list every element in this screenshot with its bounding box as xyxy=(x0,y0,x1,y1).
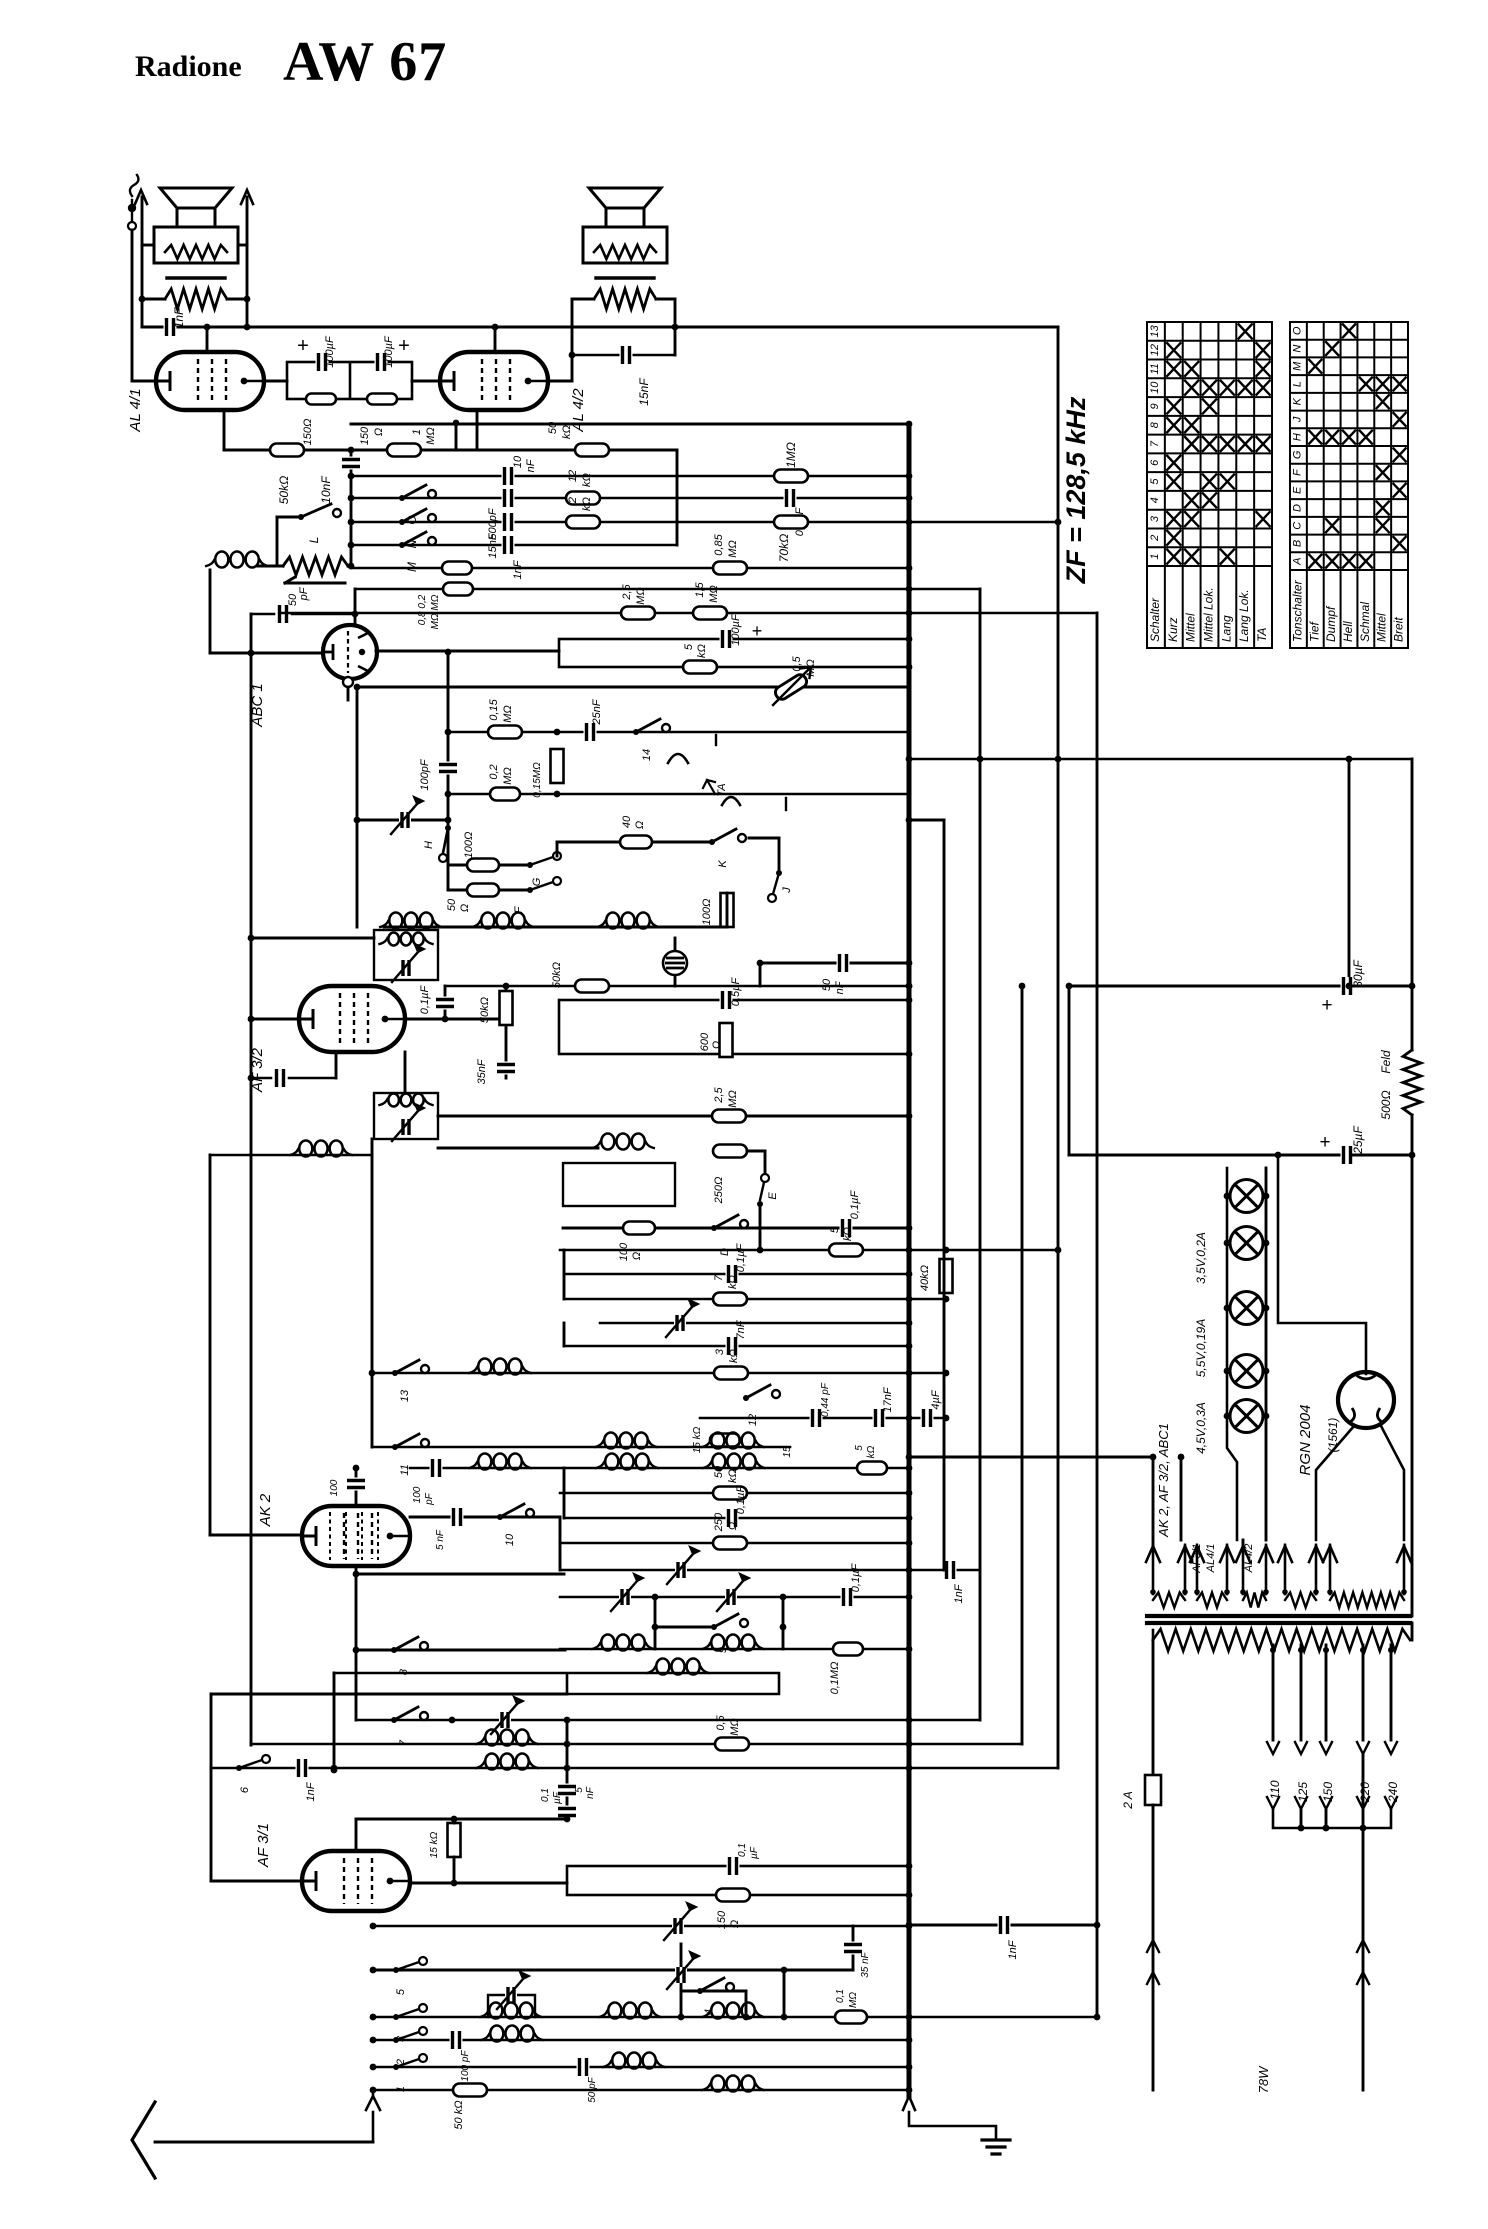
wire xyxy=(448,864,530,867)
junction xyxy=(369,1370,376,1377)
switch 5 xyxy=(396,1962,419,1970)
svg-text:AL 4/1: AL 4/1 xyxy=(127,388,144,432)
oscillator coil xyxy=(601,1134,614,1150)
cathode pin ABC1 xyxy=(343,677,353,687)
wire mains lead 1 xyxy=(1152,1640,1155,1775)
svg-text:0,5: 0,5 xyxy=(715,1714,727,1730)
resistor 2kΩ xyxy=(566,516,600,529)
wire xyxy=(405,1018,445,1021)
junction xyxy=(906,1465,913,1472)
svg-text:L: L xyxy=(1291,381,1303,387)
wire RGN pin left xyxy=(1316,1426,1354,1540)
junction xyxy=(943,1296,950,1303)
svg-text:220: 220 xyxy=(1358,1782,1372,1803)
svg-text:K: K xyxy=(717,860,729,868)
svg-text:12: 12 xyxy=(567,470,579,482)
svg-text:Ω: Ω xyxy=(711,1041,723,1049)
wire xyxy=(210,652,323,655)
svg-text:1nF: 1nF xyxy=(172,307,186,328)
tube ABC 1 xyxy=(323,625,377,679)
dial lamp 1 xyxy=(1230,1180,1263,1213)
svg-text:0,5: 0,5 xyxy=(791,655,803,671)
capacitor 1nF xyxy=(944,1561,957,1579)
resistor 7kΩ xyxy=(713,1293,747,1306)
wire xyxy=(448,889,530,892)
svg-text:13: 13 xyxy=(399,1389,411,1402)
svg-text:25µF: 25µF xyxy=(1351,1126,1365,1155)
svg-text:1MΩ: 1MΩ xyxy=(784,442,798,468)
grid capacitor xyxy=(274,1069,287,1087)
svg-text:MΩ: MΩ xyxy=(727,540,739,558)
wire loop row y1673 xyxy=(334,1673,779,1694)
trimmer capacitor xyxy=(664,1910,690,1940)
resistor 150Ω xyxy=(306,394,336,405)
coil xyxy=(478,1359,491,1375)
svg-text:AF 3/1: AF 3/1 xyxy=(255,1823,272,1868)
wire row y568 xyxy=(351,567,909,570)
junction xyxy=(906,1454,913,1461)
switch K xyxy=(709,839,715,845)
svg-text:K: K xyxy=(1291,397,1303,405)
junction xyxy=(1224,1240,1231,1247)
capacitor 5nF xyxy=(558,1806,576,1819)
svg-text:3: 3 xyxy=(1149,515,1161,522)
svg-text:8: 8 xyxy=(398,1668,410,1675)
primary winding xyxy=(1153,1629,1410,1651)
svg-text:Tief: Tief xyxy=(1307,620,1321,642)
resistor 50kΩ xyxy=(575,444,609,457)
resistor 150Ω xyxy=(367,394,397,405)
pickup jack arc 1 xyxy=(668,754,688,763)
wire xyxy=(356,687,359,927)
mains break arrows xyxy=(1357,1940,1369,1984)
junction xyxy=(780,1594,787,1601)
junction xyxy=(348,447,355,454)
junction xyxy=(906,1415,913,1422)
svg-text:A: A xyxy=(1291,557,1303,565)
svg-text:Schmal: Schmal xyxy=(1358,602,1372,642)
junction xyxy=(757,1247,764,1254)
junction xyxy=(906,1863,913,1870)
svg-text:2: 2 xyxy=(567,497,579,504)
junction xyxy=(906,983,913,990)
wire to ground xyxy=(909,2112,996,2140)
svg-text:M: M xyxy=(1291,361,1303,371)
wire row y1373 xyxy=(372,1372,946,1375)
svg-text:Dumpf: Dumpf xyxy=(1324,605,1338,642)
svg-text:B: B xyxy=(1291,540,1303,547)
switch 8 xyxy=(391,1647,397,1653)
svg-text:0,1: 0,1 xyxy=(835,1989,846,2003)
switch 13 xyxy=(392,1370,398,1376)
wire xyxy=(357,819,448,822)
wire heater tap xyxy=(1180,1457,1183,1540)
tap arrow xyxy=(1385,1797,1397,1809)
junction xyxy=(453,420,460,427)
svg-text:Breit: Breit xyxy=(1392,617,1406,642)
junction xyxy=(354,817,361,824)
field coil 500Ω xyxy=(1403,1050,1421,1115)
wire anode AL4/1 xyxy=(206,327,209,352)
svg-text:nF: nF xyxy=(585,1786,596,1799)
wire xyxy=(438,1147,598,1150)
resistor 40Ω xyxy=(620,836,652,849)
switch J xyxy=(773,873,779,894)
junction xyxy=(1323,1825,1330,1832)
capacitor 50nF xyxy=(837,954,850,972)
svg-text:12: 12 xyxy=(747,1414,759,1426)
junction xyxy=(139,296,146,303)
svg-text:3: 3 xyxy=(714,1348,726,1355)
svg-text:50kΩ: 50kΩ xyxy=(277,476,291,504)
junction xyxy=(1323,1647,1329,1653)
resistor 100Ω xyxy=(721,893,734,927)
wire xyxy=(131,230,134,381)
svg-text:150: 150 xyxy=(359,426,371,445)
svg-text:100Ω: 100Ω xyxy=(701,899,713,926)
junction xyxy=(445,791,452,798)
junction xyxy=(370,2037,377,2044)
wire xyxy=(277,516,301,519)
junction xyxy=(564,1741,571,1748)
junction xyxy=(248,1075,255,1082)
pickup jack arc 2 xyxy=(722,797,740,805)
svg-text:40: 40 xyxy=(621,815,633,828)
coil xyxy=(711,1635,724,1651)
wire row y1695 xyxy=(211,1693,567,1696)
junction xyxy=(352,611,359,618)
junction xyxy=(554,729,561,736)
resistor 3kΩ xyxy=(714,1367,748,1380)
svg-text:14: 14 xyxy=(641,749,653,761)
coil long-wave xyxy=(656,1659,669,1675)
wire lamp rail left xyxy=(1227,1168,1237,1540)
dial lamp 3 xyxy=(1230,1292,1263,1325)
tube AL 4/2 xyxy=(440,352,548,410)
svg-text:Mittel Lok.: Mittel Lok. xyxy=(1202,587,1216,642)
wire row y1155 xyxy=(1069,1154,1341,1157)
capacitor 10nF xyxy=(342,457,360,470)
resistor 0,1MΩ xyxy=(833,1643,863,1656)
svg-text:600: 600 xyxy=(699,1032,711,1051)
wire xyxy=(488,1995,535,2017)
junction xyxy=(554,791,561,798)
svg-text:ZF = 128,5 kHz: ZF = 128,5 kHz xyxy=(1061,396,1091,584)
svg-text:G: G xyxy=(1291,450,1303,459)
svg-text:kΩ: kΩ xyxy=(728,1349,740,1363)
svg-text:10: 10 xyxy=(504,1533,516,1546)
tap arrow xyxy=(1295,1797,1307,1809)
svg-text:2,5: 2,5 xyxy=(621,583,633,600)
svg-text:7: 7 xyxy=(1149,440,1161,447)
junction xyxy=(1298,1647,1304,1653)
svg-text:TA: TA xyxy=(1255,628,1269,642)
svg-text:AK 2: AK 2 xyxy=(257,1493,274,1527)
svg-text:J: J xyxy=(1291,416,1303,423)
wire antenna lead w/ arrow xyxy=(366,2090,380,2142)
wire row y1543 xyxy=(560,1542,909,1545)
switch N xyxy=(399,519,405,525)
coil xyxy=(485,1730,498,1746)
capacitor 100pF xyxy=(439,762,457,775)
resistor 100Ω xyxy=(623,1222,655,1235)
wire xyxy=(251,1018,299,1021)
junction xyxy=(906,997,913,1004)
junction xyxy=(370,2064,377,2071)
junction xyxy=(353,1571,360,1578)
junction xyxy=(781,1967,788,1974)
switch G xyxy=(530,857,553,865)
trimmer capacitor xyxy=(667,1554,693,1584)
svg-text:O: O xyxy=(1291,326,1303,335)
wire row y1926 xyxy=(373,1925,909,1928)
junction xyxy=(906,983,913,990)
svg-text:11: 11 xyxy=(1149,363,1161,374)
svg-text:6: 6 xyxy=(239,1786,251,1793)
wire main bus x909 xyxy=(907,424,912,2096)
junction xyxy=(906,1113,913,1120)
switch 14 xyxy=(633,729,639,735)
junction xyxy=(906,1741,913,1748)
junction xyxy=(451,1816,458,1823)
junction xyxy=(906,1594,913,1601)
IF1 trimmer xyxy=(392,952,418,982)
capacitor 35nF xyxy=(497,1062,515,1075)
svg-text:0,1: 0,1 xyxy=(540,1788,551,1802)
switch D xyxy=(711,1225,717,1231)
resistor 5kΩ xyxy=(829,1244,863,1257)
junction xyxy=(492,324,499,331)
resistor 0,2MΩ xyxy=(490,788,520,801)
IF transformer 1 box xyxy=(374,930,438,980)
svg-text:11: 11 xyxy=(399,1464,411,1475)
transformer core xyxy=(1147,1616,1410,1623)
wire xyxy=(674,938,677,986)
wire xyxy=(505,986,508,1078)
capacitor 0,44pF xyxy=(810,1409,823,1427)
trimmer capacitor xyxy=(497,1979,523,2009)
wire xyxy=(1152,1457,1155,1545)
svg-text:100µF: 100µF xyxy=(324,335,336,368)
svg-text:7nF: 7nF xyxy=(735,1319,747,1339)
svg-text:pF: pF xyxy=(424,1492,435,1506)
wire xyxy=(566,1720,569,1819)
svg-text:E: E xyxy=(767,1192,779,1200)
svg-text:0,1: 0,1 xyxy=(737,1843,748,1857)
coil antenna xyxy=(215,552,228,568)
junction xyxy=(204,324,211,331)
svg-text:+: + xyxy=(297,335,309,357)
TA arrow xyxy=(703,780,715,794)
junction xyxy=(348,473,355,480)
svg-text:D: D xyxy=(1291,504,1303,512)
trimmer capacitor xyxy=(611,1581,637,1611)
wire x980 xyxy=(979,589,982,1720)
svg-text:2 A: 2 A xyxy=(1121,1791,1135,1810)
dial lamp 2 xyxy=(1230,1227,1263,1260)
wire xyxy=(132,380,156,383)
resistor 40kΩ xyxy=(940,1259,953,1293)
tube AK 2 xyxy=(302,1506,410,1566)
junction xyxy=(1409,1152,1416,1159)
coil xyxy=(299,1141,312,1157)
junction xyxy=(906,1765,913,1772)
svg-text:MΩ: MΩ xyxy=(727,1090,739,1108)
wire speaker lead right xyxy=(246,197,249,327)
junction xyxy=(348,495,355,502)
svg-text:50kΩ: 50kΩ xyxy=(551,962,563,988)
wire row y1819 xyxy=(356,1818,567,1821)
junction xyxy=(1263,1413,1270,1420)
junction xyxy=(451,1880,458,1887)
wire xyxy=(852,1926,855,1970)
coil RF 1 xyxy=(389,913,402,929)
junction xyxy=(906,1271,913,1278)
junction xyxy=(906,1051,913,1058)
junction xyxy=(564,1816,571,1823)
tap arrow xyxy=(1320,1797,1332,1809)
dial lamp 5 xyxy=(1230,1400,1263,1433)
wire xyxy=(355,1819,358,1852)
svg-text:4µF: 4µF xyxy=(930,1389,942,1409)
wire speaker lead left xyxy=(141,197,144,327)
junction xyxy=(1388,1647,1394,1653)
svg-text:0,15MΩ: 0,15MΩ xyxy=(532,762,543,798)
junction xyxy=(906,1717,913,1724)
junction xyxy=(906,2014,913,2021)
svg-text:15 kΩ: 15 kΩ xyxy=(692,1426,703,1453)
svg-text:Ω: Ω xyxy=(373,428,385,436)
switch 4 xyxy=(697,1988,703,1994)
wire xyxy=(347,687,350,700)
wire mains lead 2 xyxy=(1362,1754,1365,2090)
resistor 5kΩ xyxy=(857,1462,887,1475)
junction xyxy=(652,1624,659,1631)
IF2 coil xyxy=(388,1094,399,1107)
svg-text:Lang Lok.: Lang Lok. xyxy=(1237,589,1251,642)
wire row y1274 xyxy=(564,1273,909,1276)
junction xyxy=(906,2064,913,2071)
svg-text:AW 67: AW 67 xyxy=(283,31,447,93)
svg-text:0,15: 0,15 xyxy=(488,698,500,720)
svg-text:Mittel: Mittel xyxy=(1375,613,1389,642)
junction xyxy=(248,1016,255,1023)
svg-text:25nF: 25nF xyxy=(591,698,603,725)
junction xyxy=(348,519,355,526)
AK2 grids xyxy=(330,1512,378,1560)
junction xyxy=(1263,1193,1270,1200)
wire x1058 xyxy=(1057,327,1060,1768)
capacitor 1nF xyxy=(502,536,515,554)
wire x211 bottom xyxy=(210,1695,213,1881)
rectifier tube RGN 2004 xyxy=(1338,1372,1394,1428)
wire xyxy=(351,449,456,452)
switch 3 xyxy=(396,2009,419,2017)
svg-text:µF: µF xyxy=(552,1791,563,1804)
junction xyxy=(906,636,913,643)
wire x448 xyxy=(447,652,450,820)
wire row y1597 xyxy=(560,1596,909,1599)
capacitor 50pF xyxy=(277,605,290,623)
wire xyxy=(674,299,677,355)
svg-text:13: 13 xyxy=(1149,324,1161,337)
meter xyxy=(663,951,687,975)
capacitor 0,1µF xyxy=(727,1857,740,1875)
wire row y1768 xyxy=(211,1767,1058,1770)
svg-text:L: L xyxy=(307,537,321,544)
svg-text:0,1MΩ: 0,1MΩ xyxy=(829,1662,841,1695)
svg-text:Ω: Ω xyxy=(634,821,646,829)
svg-text:RGN 2004: RGN 2004 xyxy=(1297,1405,1314,1476)
junction xyxy=(906,586,913,593)
svg-text:150Ω: 150Ω xyxy=(302,419,314,446)
junction xyxy=(1263,1305,1270,1312)
junction xyxy=(1298,1825,1305,1832)
svg-text:5,5V,0,19A: 5,5V,0,19A xyxy=(1194,1319,1208,1378)
capacitor 7nF xyxy=(726,1337,739,1355)
resistor 0,8MΩ xyxy=(443,583,473,596)
wire row y613 xyxy=(280,612,1097,615)
junction xyxy=(1224,1193,1231,1200)
wire xyxy=(410,1882,567,1885)
wire row y2017 xyxy=(373,2016,1097,2019)
wire xyxy=(404,1052,407,1093)
primary left lead xyxy=(1152,1630,1155,1640)
capacitor 1nF (speaker) xyxy=(164,318,177,336)
trimmer capacitor xyxy=(666,1307,692,1337)
junction xyxy=(1263,1240,1270,1247)
wire anode AL4/2 xyxy=(494,327,497,352)
speaker LS2 with field winding xyxy=(589,188,661,208)
wire heater feed xyxy=(909,1456,1153,1459)
tube AL 4/1 xyxy=(156,352,264,410)
decoupling box 2 xyxy=(559,1000,909,1054)
junction xyxy=(1055,519,1062,526)
capacitor 0,1µF xyxy=(436,997,454,1010)
svg-text:kΩ: kΩ xyxy=(866,1445,877,1458)
junction xyxy=(906,1922,913,1929)
IF2 trimmer xyxy=(392,1111,418,1141)
wire xyxy=(354,589,357,625)
wire x1349 xyxy=(1348,759,1351,986)
switch 1 xyxy=(396,2059,419,2067)
coil xyxy=(711,2076,724,2092)
junction xyxy=(672,324,679,331)
junction xyxy=(906,1540,913,1547)
wire row y1155 xyxy=(210,1154,372,1157)
svg-text:4,5V,0,3A: 4,5V,0,3A xyxy=(1194,1402,1208,1454)
svg-text:MΩ: MΩ xyxy=(708,585,720,603)
junction xyxy=(1224,1413,1231,1420)
svg-text:+: + xyxy=(1321,995,1332,1016)
wire row y1649 xyxy=(560,1648,909,1651)
svg-text:5: 5 xyxy=(574,1787,585,1793)
junction xyxy=(370,2014,377,2021)
wire cathode AK2 xyxy=(355,1566,358,1720)
wire right edge lower xyxy=(1411,1115,1414,1616)
svg-text:MΩ: MΩ xyxy=(848,1992,859,2008)
coil xyxy=(608,2003,621,2019)
wire row y1570 xyxy=(560,1569,980,1572)
coil xyxy=(711,1433,724,1449)
switch O xyxy=(399,495,405,501)
switch H xyxy=(443,828,448,853)
IF transformer 2 box xyxy=(374,1093,438,1139)
svg-text:240: 240 xyxy=(1386,1782,1400,1803)
svg-text:100: 100 xyxy=(618,1242,630,1261)
svg-text:0,1µF: 0,1µF xyxy=(849,1190,861,1220)
svg-text:Feld: Feld xyxy=(1379,1050,1393,1074)
